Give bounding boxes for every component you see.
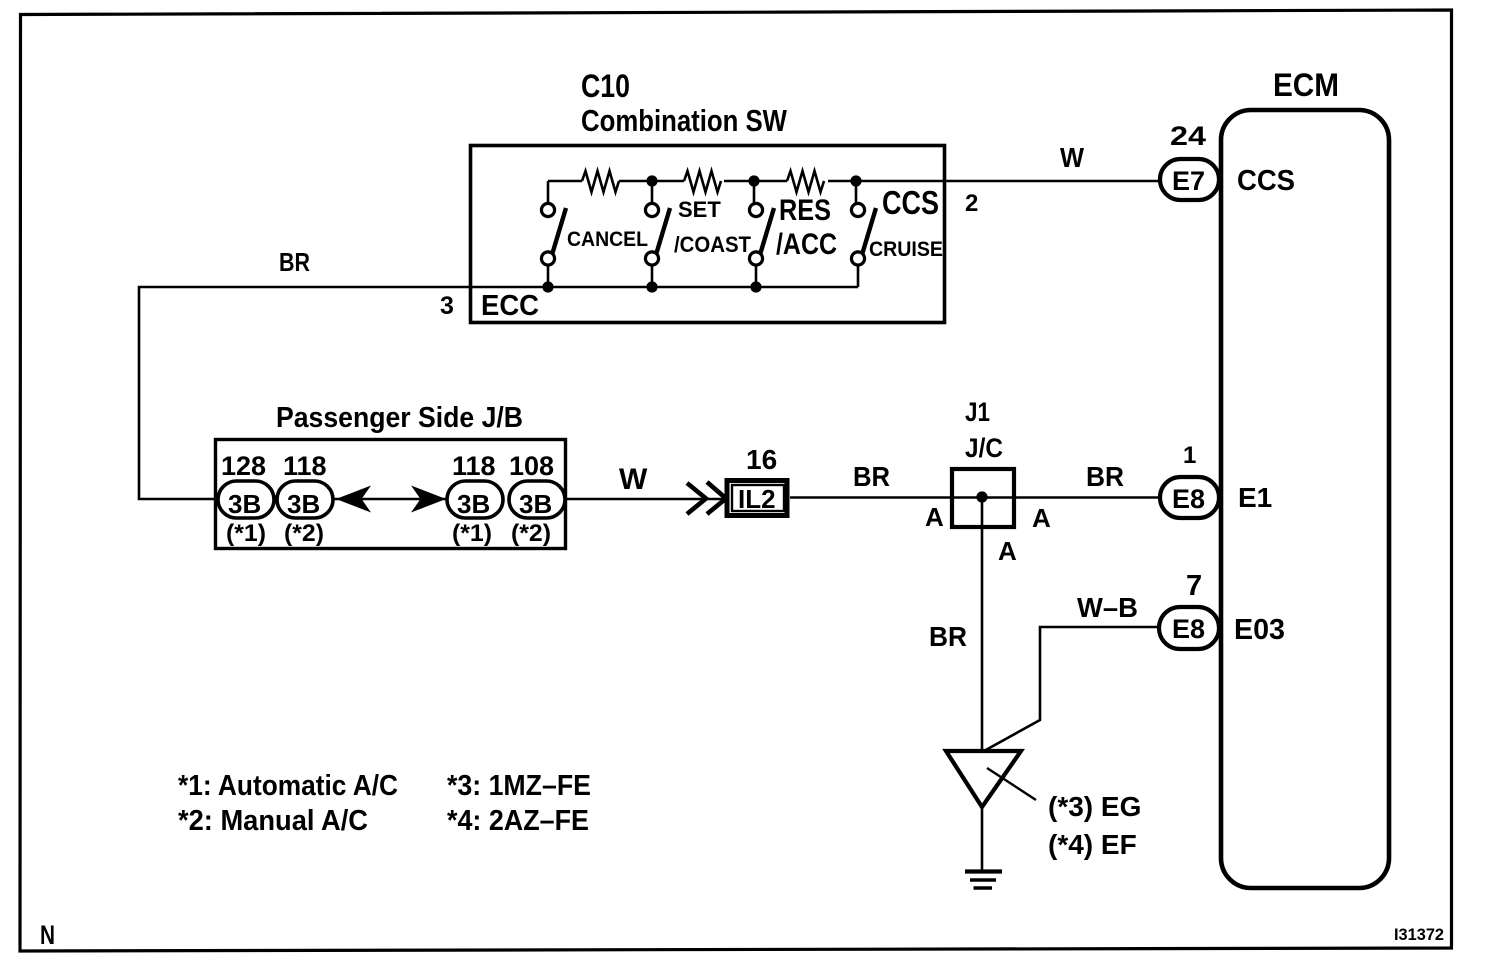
- wire BR down from J/C: [981, 498, 984, 751]
- connector 3B (118 left): [277, 481, 333, 519]
- svg-text:RES: RES: [779, 194, 831, 227]
- svg-text:(*1): (*1): [452, 520, 492, 547]
- junction block Passenger Side J/B: [216, 440, 566, 549]
- svg-text:C10: C10: [581, 68, 630, 104]
- svg-text:118: 118: [283, 451, 327, 481]
- svg-text:(*3) EG: (*3) EG: [1048, 791, 1141, 822]
- svg-text:CRUISE: CRUISE: [869, 238, 943, 261]
- switch CANCEL: [541, 181, 566, 287]
- svg-text:Passenger Side J/B: Passenger Side J/B: [276, 402, 523, 434]
- svg-text:BR: BR: [929, 621, 967, 652]
- pin E8 (E1): [1160, 477, 1219, 518]
- junction connector J1 J/C: [952, 469, 1014, 527]
- svg-text:*4: 2AZ–FE: *4: 2AZ–FE: [447, 805, 589, 837]
- svg-text:(*4) EF: (*4) EF: [1048, 829, 1137, 860]
- svg-text:N: N: [40, 920, 55, 950]
- connector chevrons: [687, 482, 726, 514]
- wire top bus to E7: [548, 180, 1160, 183]
- svg-text:24: 24: [1170, 121, 1206, 151]
- svg-text:/ACC: /ACC: [776, 228, 837, 261]
- svg-text:E1: E1: [1238, 482, 1272, 513]
- svg-text:118: 118: [452, 451, 496, 481]
- svg-text:3B: 3B: [287, 489, 320, 519]
- svg-text:ECM: ECM: [1273, 67, 1339, 103]
- node SET junction: [646, 175, 657, 186]
- pin E7: [1160, 159, 1219, 200]
- svg-text:(*2): (*2): [284, 520, 324, 547]
- switch RES/ACC: [749, 181, 774, 287]
- resistor R1: [582, 171, 619, 192]
- ECM block: [1221, 110, 1389, 888]
- svg-text:IL2: IL2: [738, 484, 776, 514]
- svg-text:3: 3: [440, 292, 454, 320]
- pin E8 (E03): [1159, 607, 1219, 649]
- svg-text:E7: E7: [1172, 166, 1205, 196]
- wire BR from IL2 to J/C: [790, 496, 982, 499]
- svg-text:CCS: CCS: [1237, 165, 1295, 197]
- connector 3B (118 right): [447, 481, 503, 519]
- svg-text:BR: BR: [279, 247, 310, 277]
- svg-text:W–B: W–B: [1077, 592, 1138, 623]
- svg-text:E8: E8: [1172, 484, 1205, 514]
- wire W-B from ground to E8: [984, 627, 1161, 751]
- connector IL2: [727, 481, 787, 516]
- wire W from J/B to IL2: [565, 498, 727, 501]
- svg-text:E03: E03: [1234, 614, 1285, 646]
- combination switch block C10: [471, 146, 945, 323]
- svg-text:A: A: [1032, 503, 1051, 533]
- svg-text:J1: J1: [965, 397, 990, 427]
- arrow left: [336, 486, 371, 513]
- ground symbol: [965, 872, 1002, 889]
- svg-text:3B: 3B: [457, 489, 490, 519]
- svg-text:108: 108: [509, 451, 554, 481]
- svg-text:A: A: [998, 536, 1017, 566]
- svg-text:SET: SET: [678, 197, 721, 222]
- svg-text:E8: E8: [1172, 614, 1205, 644]
- svg-text:3B: 3B: [228, 489, 261, 519]
- svg-text:*2: Manual A/C: *2: Manual A/C: [178, 805, 368, 837]
- node CRUISE junction: [850, 175, 861, 186]
- wire ECC bottom bus: [469, 286, 858, 289]
- wire triangle to ground: [981, 807, 984, 871]
- wire BR from J/C to E8: [982, 496, 1161, 499]
- leader line EG: [987, 768, 1036, 800]
- svg-text:*3: 1MZ–FE: *3: 1MZ–FE: [447, 770, 591, 802]
- svg-text:128: 128: [221, 451, 266, 481]
- svg-text:16: 16: [746, 444, 777, 475]
- wire between arrows: [333, 498, 447, 501]
- svg-text:7: 7: [1186, 570, 1202, 602]
- svg-text:3B: 3B: [519, 489, 552, 519]
- junction node RES: [750, 281, 761, 292]
- svg-text:/COAST: /COAST: [674, 232, 752, 257]
- switch SET/COAST: [645, 181, 670, 287]
- svg-text:Combination SW: Combination SW: [581, 103, 788, 138]
- connector 3B (108): [509, 481, 565, 519]
- connector 3B (128): [218, 481, 274, 519]
- wire BR from ECC to J/B: [139, 287, 469, 499]
- junction node SET: [646, 281, 657, 292]
- svg-text:1: 1: [1183, 442, 1196, 469]
- svg-text:A: A: [925, 502, 944, 532]
- junction node CANCEL: [542, 281, 553, 292]
- svg-text:CANCEL: CANCEL: [567, 228, 648, 251]
- resistor R3: [787, 171, 824, 192]
- svg-text:*1: Automatic A/C: *1: Automatic A/C: [178, 770, 398, 802]
- svg-text:BR: BR: [853, 461, 890, 492]
- svg-text:BR: BR: [1086, 461, 1124, 492]
- svg-text:J/C: J/C: [965, 433, 1003, 463]
- svg-text:CCS: CCS: [882, 184, 939, 221]
- svg-text:2: 2: [965, 190, 978, 217]
- resistor R2: [684, 171, 721, 192]
- arrow right: [411, 486, 446, 513]
- svg-text:(*1): (*1): [226, 520, 266, 547]
- svg-text:W: W: [1060, 142, 1085, 173]
- node RES junction: [748, 175, 759, 186]
- svg-text:I31372: I31372: [1394, 926, 1444, 944]
- svg-text:W: W: [619, 463, 648, 496]
- switch CRUISE: [851, 181, 876, 287]
- ground triangle EG/EF: [946, 751, 1021, 807]
- svg-text:ECC: ECC: [481, 290, 539, 322]
- svg-text:(*2): (*2): [511, 520, 551, 547]
